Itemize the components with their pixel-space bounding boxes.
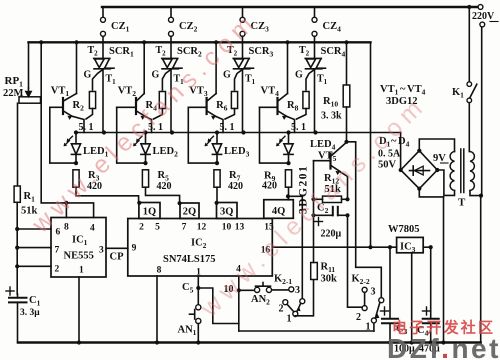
node C2 left bbox=[311, 213, 315, 217]
wire T1 down to rail bbox=[242, 69, 244, 133]
wire gate to R4 bbox=[162, 59, 177, 90]
node box 1Q bbox=[139, 203, 160, 219]
node box 2Q bbox=[180, 203, 199, 219]
svg-text:50V: 50V bbox=[378, 160, 397, 171]
wire neutral down right side bbox=[481, 27, 483, 196]
node R12 right bbox=[345, 197, 349, 201]
node pin8 ground bbox=[155, 340, 159, 344]
svg-text:30k: 30k bbox=[321, 274, 338, 285]
wire left bus pin2 bbox=[17, 265, 51, 267]
svg-text:3: 3 bbox=[371, 287, 376, 298]
switch K2-1 bbox=[289, 287, 294, 292]
socket CZ1 bbox=[102, 7, 104, 17]
node IC3 gnd ground bbox=[410, 340, 414, 344]
resistor R4 gate 5.1 bbox=[159, 92, 165, 109]
svg-text:W7805: W7805 bbox=[388, 224, 420, 235]
LED arrows bbox=[65, 136, 73, 145]
capacitor C1 3.3u bbox=[9, 298, 27, 303]
node LED3 cathode junction bbox=[215, 161, 219, 165]
svg-text:~: ~ bbox=[400, 84, 406, 95]
svg-text:G: G bbox=[295, 70, 303, 81]
wire emitter line to K2-2 t2 bbox=[348, 215, 362, 307]
svg-text:3: 3 bbox=[295, 285, 300, 296]
capacitor C2 220u bbox=[313, 199, 315, 215]
LED4 bbox=[288, 133, 290, 144]
svg-text:8: 8 bbox=[64, 223, 69, 233]
transistor VT1 bbox=[62, 98, 64, 114]
resistor R3 420 bbox=[73, 170, 79, 187]
wire IC1 pin1 to ground bbox=[78, 277, 80, 343]
wire LED anode rail bbox=[76, 132, 401, 134]
svg-text:3Q: 3Q bbox=[220, 206, 233, 217]
LED arrows bbox=[206, 136, 214, 145]
switch K2-2 bbox=[362, 287, 367, 292]
op-amp IC1 NE555 box bbox=[51, 218, 106, 278]
wire IC3 out bbox=[423, 246, 431, 248]
svg-text:5: 5 bbox=[155, 223, 160, 233]
label plus C3 bbox=[381, 307, 389, 315]
svg-text:2: 2 bbox=[356, 312, 361, 323]
wire R4 bottom to emitter node bbox=[154, 109, 163, 120]
wire ground rail bbox=[18, 341, 481, 343]
wire T1 down to rail bbox=[170, 69, 172, 133]
wire collector VT2 to 5V rail bbox=[143, 42, 145, 93]
transistor VT4 bbox=[276, 98, 278, 114]
node 2Q corner bbox=[178, 201, 182, 205]
node neutral junction bbox=[479, 194, 483, 198]
wire pin8 stub bbox=[65, 203, 67, 218]
LED3 bbox=[216, 133, 218, 144]
svg-text:1Q: 1Q bbox=[143, 206, 156, 217]
wire R5 to 2Q bbox=[146, 187, 180, 203]
resistor R7 420 bbox=[214, 170, 220, 187]
wire bridge ac right bbox=[437, 170, 454, 195]
node pin7 tap bbox=[15, 246, 19, 250]
node T1 on rail bbox=[102, 130, 106, 134]
resistor R10 3.3k bbox=[346, 42, 348, 85]
transformer core bbox=[461, 149, 464, 193]
svg-text:3. 3μ: 3. 3μ bbox=[20, 308, 40, 318]
wire T1 down to rail bbox=[102, 69, 104, 133]
rectifier D1-D4 bridge bbox=[401, 151, 438, 189]
op-amp IC2 SN74LS175 box bbox=[128, 219, 272, 277]
resistor R8 gate 5.1 bbox=[303, 92, 309, 109]
svg-text:4: 4 bbox=[90, 224, 95, 234]
triac SCR2 bbox=[162, 58, 182, 68]
node LED4 anode on rail bbox=[286, 130, 290, 134]
triac SCR4 bbox=[305, 58, 325, 68]
wire CZ4 to SCR4 T2 bbox=[314, 36, 316, 58]
socket CZ3 bbox=[242, 7, 244, 17]
svg-text:3: 3 bbox=[99, 246, 104, 256]
node box 3Q bbox=[217, 203, 238, 219]
svg-text:8: 8 bbox=[157, 266, 162, 276]
node pin8 supply bbox=[64, 201, 68, 205]
wire collector VT4 to 5V rail bbox=[287, 42, 289, 93]
wire T1 down to rail bbox=[314, 69, 316, 133]
potentiometer RP1 22M body bbox=[19, 97, 41, 103]
svg-text:220V: 220V bbox=[472, 11, 495, 22]
node C4 ground bbox=[429, 340, 433, 344]
wire IC2 pin1 down bbox=[197, 276, 199, 305]
svg-text:420: 420 bbox=[228, 181, 243, 192]
svg-text:13: 13 bbox=[235, 223, 245, 233]
node T1 on rail bbox=[313, 130, 317, 134]
node LED4 cathode junction bbox=[286, 161, 290, 165]
wire R3 to 1Q bbox=[76, 187, 139, 202]
LED arrows bbox=[134, 136, 142, 145]
svg-text:2: 2 bbox=[55, 265, 60, 275]
node minus ground bbox=[441, 340, 445, 344]
wire 5V rail left end down to RP1 wiper bbox=[28, 42, 30, 88]
wire to AN2 bbox=[239, 289, 255, 291]
wire VT5 collector to K2-2 t3 bbox=[347, 142, 381, 298]
transformer T secondary winding bbox=[450, 152, 454, 191]
svg-text:T: T bbox=[458, 197, 466, 209]
wire K2-2 pole down bbox=[373, 323, 375, 331]
wire RP1 to R1 bbox=[17, 103, 19, 186]
wire CZ3 to SCR3 T2 bbox=[242, 36, 244, 58]
resistor R6 gate 5.1 bbox=[231, 92, 237, 109]
wiper arrow RP1 bbox=[26, 88, 31, 97]
wire gate to R6 bbox=[235, 59, 249, 90]
wire bridge ac top bbox=[419, 139, 454, 152]
svg-text:9V: 9V bbox=[433, 153, 446, 164]
svg-text:2: 2 bbox=[139, 223, 144, 233]
wire IC2 pin4 bottom wire bbox=[239, 330, 374, 332]
wire R8 bottom to emitter node bbox=[297, 109, 307, 120]
wire rail to bridge plus bbox=[400, 133, 402, 171]
node R9 4Q branch bbox=[286, 194, 290, 198]
svg-text:G: G bbox=[84, 70, 92, 81]
wire CZ1 to SCR1 T2 bbox=[102, 36, 104, 58]
wire IC2 pin4 down bbox=[238, 276, 240, 331]
wire R2 bottom to emitter node bbox=[86, 109, 93, 120]
transistor VT2 bbox=[135, 98, 137, 114]
wire C5 node jog to pin4 line bbox=[198, 288, 239, 324]
wire collector VT1 to 5V rail bbox=[76, 42, 78, 93]
wire base down bbox=[260, 107, 289, 163]
node R1 branch on 5V rail bbox=[39, 40, 43, 44]
node AN1 ground bbox=[196, 340, 200, 344]
wire VT5 base to R12 bbox=[313, 161, 315, 199]
wire AN2 to K2-1 bbox=[272, 289, 289, 291]
socket CZ4 bbox=[314, 7, 316, 17]
triac SCR3 bbox=[233, 58, 253, 68]
wire IC1 supply from 5V rail bbox=[41, 42, 93, 217]
wire gate to R8 bbox=[306, 59, 321, 90]
node T1 on rail bbox=[170, 130, 174, 134]
resistor R1 51k bbox=[14, 186, 20, 202]
node T1 on rail bbox=[241, 130, 245, 134]
wire K2-1 pole to R11 bbox=[295, 280, 313, 317]
svg-text:2Q: 2Q bbox=[183, 206, 196, 217]
node LED1 anode on rail bbox=[74, 130, 78, 134]
wire CZ2 to SCR2 T2 bbox=[170, 36, 172, 58]
wire 4Q node to K2-1 throw bbox=[288, 196, 302, 298]
node C5 bbox=[196, 286, 200, 290]
switch K1 bbox=[467, 82, 472, 87]
node 1Q corner bbox=[137, 201, 141, 205]
svg-text:NE555: NE555 bbox=[64, 251, 94, 262]
transistor VT5 bbox=[329, 154, 331, 169]
node R10 on 5V rail bbox=[344, 40, 348, 44]
node collector on 5V rail bbox=[214, 40, 218, 44]
wire neutral down to ground rail bbox=[480, 196, 482, 343]
triac SCR1 bbox=[94, 58, 114, 68]
wire bridge minus to ground bbox=[419, 189, 443, 197]
svg-text:9: 9 bbox=[132, 244, 137, 254]
wire collector VT3 to 5V rail bbox=[215, 42, 217, 93]
svg-text:1: 1 bbox=[366, 322, 371, 333]
wire R6 bottom to emitter node bbox=[225, 109, 235, 120]
node LED2 anode on rail bbox=[143, 130, 147, 134]
node collector on 5V rail bbox=[285, 40, 289, 44]
wire IC1 pin3 to IC2 pin9 CP bbox=[106, 247, 128, 249]
node collector on 5V rail bbox=[74, 40, 78, 44]
node C3 ground bbox=[388, 340, 392, 344]
node AN2 tap bbox=[237, 288, 241, 292]
svg-text:7: 7 bbox=[55, 246, 60, 256]
diode inside bridge bbox=[410, 170, 430, 172]
node pin6 tap bbox=[15, 227, 19, 231]
wire IC2 pin8 to ground bbox=[156, 276, 158, 343]
svg-text:2: 2 bbox=[279, 304, 284, 315]
wire base down bbox=[50, 107, 76, 163]
svg-text:7: 7 bbox=[182, 223, 187, 233]
wire top 220V live rail bbox=[102, 6, 477, 8]
wire left bus pin7 bbox=[17, 247, 51, 249]
terminal 220V upper bbox=[478, 5, 483, 10]
LED arrows bbox=[277, 136, 285, 145]
capacitor C3 100u bbox=[389, 247, 391, 319]
LED2 bbox=[145, 133, 147, 144]
node 5V down line bbox=[368, 245, 372, 249]
node LED3 anode on rail bbox=[215, 130, 219, 134]
svg-text:22M: 22M bbox=[3, 88, 24, 99]
wire base down bbox=[117, 107, 146, 163]
svg-text:G: G bbox=[223, 70, 231, 81]
svg-text:5. 1: 5. 1 bbox=[220, 122, 235, 133]
op-amp IC3 7805 box bbox=[397, 237, 424, 252]
resistor R2 gate 5.1 bbox=[89, 92, 95, 109]
svg-text:1: 1 bbox=[287, 314, 292, 325]
svg-text:1: 1 bbox=[79, 266, 84, 276]
wire AN1 to ground bbox=[197, 324, 199, 343]
svg-text:6: 6 bbox=[56, 228, 61, 238]
svg-text:3. 3k: 3. 3k bbox=[321, 111, 342, 122]
wire R11 top to R12 node bbox=[313, 215, 315, 262]
node box 4Q bbox=[264, 200, 294, 219]
node pin2 tap bbox=[15, 264, 19, 268]
node IC3 out bbox=[429, 245, 433, 249]
node C3 top bbox=[388, 245, 392, 249]
svg-text:G: G bbox=[152, 70, 160, 81]
svg-text:5. 1: 5. 1 bbox=[79, 122, 94, 133]
node top rail to K1 bbox=[467, 5, 471, 9]
svg-text:DZf.net: DZf.net bbox=[387, 333, 500, 360]
node LED2 cathode junction bbox=[143, 161, 147, 165]
node pin1 ground bbox=[77, 340, 81, 344]
label plus C2 bbox=[315, 218, 323, 226]
svg-text:10: 10 bbox=[222, 223, 232, 233]
socket CZ2 bbox=[170, 7, 172, 17]
resistor R11 30k bbox=[311, 263, 318, 280]
wire R1 down to C1 bbox=[16, 202, 18, 294]
wire primary bottom to neutral bbox=[470, 191, 481, 196]
wire R7 to 3Q bbox=[216, 187, 218, 202]
wire +5V rail bbox=[29, 41, 371, 43]
wire gate to R2 bbox=[93, 59, 110, 90]
svg-text:220μ: 220μ bbox=[321, 229, 342, 240]
svg-text:420: 420 bbox=[157, 181, 172, 192]
node collector on 5V rail bbox=[142, 40, 146, 44]
wire left bus pin6 bbox=[17, 228, 51, 230]
wire 5V line IC2 pin16 to IC3 bbox=[272, 246, 396, 248]
node C2 right bbox=[345, 213, 349, 217]
resistor R5 420 bbox=[142, 170, 148, 187]
svg-text:CP: CP bbox=[110, 252, 125, 263]
resistor R12 51k bbox=[323, 196, 342, 202]
terminal 220V lower bbox=[480, 22, 485, 27]
svg-text:5. 1: 5. 1 bbox=[291, 122, 306, 133]
label plus C1 bbox=[6, 287, 14, 295]
wire 5V rail right end down to 7805 bbox=[370, 42, 372, 247]
node LED1 cathode junction bbox=[74, 161, 78, 165]
label plus C4 bbox=[423, 307, 431, 315]
wire IC3 gnd to ground bbox=[411, 253, 413, 343]
wire base down bbox=[188, 107, 217, 163]
capacitor C4 470u bbox=[430, 247, 432, 319]
wire K1 branch bbox=[468, 7, 470, 82]
svg-text:12: 12 bbox=[197, 223, 207, 233]
wire K1 to transformer primary bbox=[468, 103, 470, 152]
transistor VT3 bbox=[206, 98, 208, 114]
transformer T primary winding bbox=[470, 152, 474, 191]
svg-text:420: 420 bbox=[262, 181, 277, 192]
node VT5 collector bbox=[344, 140, 348, 144]
push button AN1 bbox=[196, 305, 201, 310]
node R12 left bbox=[311, 197, 315, 201]
svg-text:SN74LS175: SN74LS175 bbox=[163, 254, 216, 265]
node 3Q corner bbox=[215, 201, 219, 205]
resistor R9 420 bbox=[285, 170, 291, 187]
push button AN2 bbox=[255, 287, 260, 292]
wire R9 to 4Q bbox=[288, 187, 290, 200]
LED1 bbox=[75, 133, 77, 144]
